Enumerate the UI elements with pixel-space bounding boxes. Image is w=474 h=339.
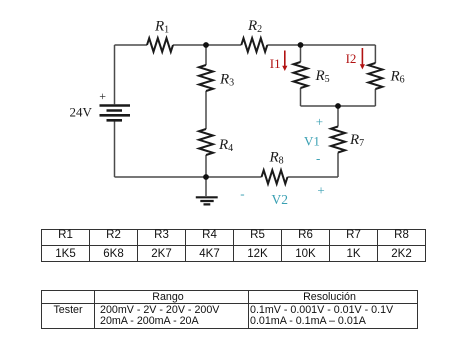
svg-text:R1: R1	[154, 19, 169, 36]
svg-text:+: +	[317, 183, 324, 198]
svg-text:I1: I1	[270, 56, 281, 71]
svg-text:R5: R5	[315, 68, 330, 85]
svg-text:24V: 24V	[70, 105, 93, 120]
svg-text:-: -	[240, 186, 244, 201]
svg-text:-: -	[316, 151, 320, 166]
svg-text:+: +	[99, 89, 106, 103]
svg-text:V1: V1	[304, 134, 320, 149]
svg-text:R8: R8	[269, 150, 284, 167]
svg-text:R3: R3	[219, 72, 234, 89]
svg-text:R7: R7	[349, 132, 364, 149]
svg-text:R4: R4	[218, 137, 233, 154]
svg-text:+: +	[316, 114, 323, 129]
svg-text:V2: V2	[272, 192, 289, 207]
svg-text:R6: R6	[390, 69, 405, 86]
svg-text:R2: R2	[247, 18, 262, 35]
svg-text:I2: I2	[346, 51, 357, 66]
